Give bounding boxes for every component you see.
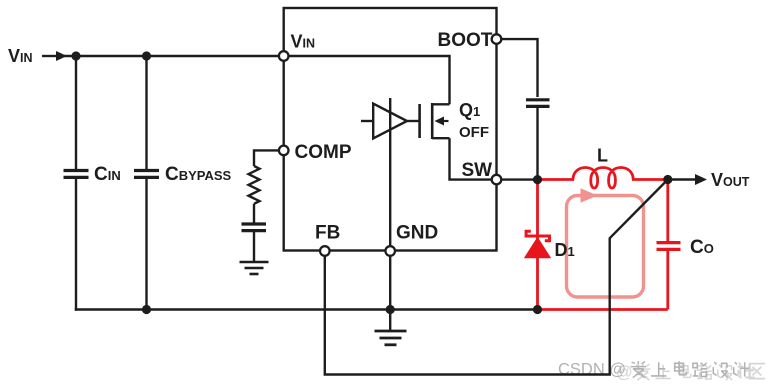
inductor L [573,168,633,189]
watermark [558,361,765,382]
svg-text:VIN: VIN [291,32,316,52]
node junction ground rail / red return [533,305,542,314]
pin COMP circle [279,146,289,156]
wire feedback FB to VOUT node [325,180,668,375]
node junction VOUT [663,175,672,184]
diode D1 schottky [524,231,575,260]
pin GND circle [385,246,395,256]
svg-text:VIN: VIN [8,46,33,66]
svg-text:FB: FB [315,223,340,244]
capacitor bootstrap [526,100,550,180]
node junction CBYPASS/ground rail [142,305,151,314]
svg-text:Q1: Q1 [459,100,480,120]
watermark light doubled layer [616,362,765,381]
wire red inductor to VOUT node [632,178,668,181]
wire red bottom return [538,308,668,311]
capacitor CIN [64,56,121,311]
wire driver ground line through triangle [389,98,391,247]
pink current loop [567,188,644,297]
capacitor Co [657,180,714,310]
node junction GND/ground rail [386,305,395,314]
wire VOUT output arrow [668,178,698,180]
wire GND pin to ground rail [389,255,391,331]
pin VIN circle [279,51,289,61]
wire VIN input arrow [42,55,58,57]
op-amp U1 IC outline [284,8,497,251]
op-amp gate driver triangle [361,104,407,139]
svg-text:L: L [597,146,608,166]
svg-text:CIN: CIN [94,164,121,185]
svg-text:CSDN @: CSDN @ [558,361,626,379]
svg-text:GND: GND [396,223,438,244]
capacitor CBYPASS [134,56,232,310]
svg-text:D1: D1 [555,240,575,260]
wire red SW node to inductor [538,178,575,181]
wire internal VIN rail to Q1 drain [284,56,450,104]
wire top input rail [64,55,284,57]
wire bottom ground rail [75,308,538,310]
pin BOOT circle [492,34,502,44]
svg-text:CO: CO [690,237,714,258]
node junction at CIN [71,51,80,60]
node junction SW [533,175,542,184]
transistor Q1 MOSFET [407,100,489,141]
ground main symbol [375,331,407,345]
svg-text:CBYPASS: CBYPASS [165,164,232,185]
wire red SW node down through D1 [536,180,539,310]
capacitor COMP network [242,224,267,261]
svg-text:COMP: COMP [295,142,352,163]
pin FB circle [320,246,330,256]
resistor COMP network [249,150,284,222]
watermark CSDN layer [558,361,749,379]
svg-text:BOOT: BOOT [438,30,493,51]
wire SW pin to junction [497,178,538,180]
svg-text:OFF: OFF [459,124,489,141]
ground COMP network [240,262,269,274]
svg-text:SW: SW [462,160,493,181]
wire BOOT to bootstrap capacitor [501,39,538,97]
svg-text:VOUT: VOUT [711,170,750,190]
pin SW circle [492,175,502,185]
wire Q1 source to SW pin [450,138,492,179]
node junction at CBYPASS [142,51,151,60]
